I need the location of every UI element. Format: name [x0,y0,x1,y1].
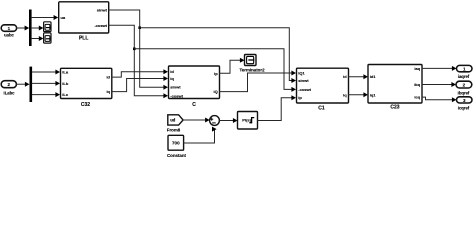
svg-text:ibqref: ibqref [458,90,470,95]
constant Constant 700 [167,135,187,158]
wire C ip to Terminator2 [220,58,245,74]
block PLL [59,2,109,42]
wire PIcs to C1 ip [258,95,297,120]
svg-text:iLc: iLc [62,92,69,97]
wire Sum to PIcs [219,118,237,123]
svg-text:iQ1: iQ1 [298,71,305,76]
wire C23 iaq to outport1 [422,66,457,71]
block PIcs [238,112,258,130]
svg-text:iLb: iLb [62,81,69,86]
svg-text:-coswt: -coswt [94,23,107,28]
svg-text:id: id [170,69,174,74]
svg-text:icqref: icqref [458,106,470,111]
wire From8 to Sum [183,118,210,123]
svg-text:ip: ip [214,71,218,76]
svg-text:id1: id1 [370,74,377,79]
block C [169,66,220,108]
svg-text:iQ: iQ [213,89,217,94]
block C1 [297,68,349,111]
svg-text:id: id [106,75,110,80]
svg-text:C32: C32 [81,102,90,108]
svg-text:iq: iq [170,76,174,81]
svg-text:Constant: Constant [167,153,187,158]
wire demux to Terminator [32,26,44,31]
wire C1 id to C23 id1 [349,74,369,79]
svg-text:uabc: uabc [4,33,14,38]
inport 1 uabc [1,25,16,38]
svg-text:id: id [343,74,347,79]
wire PLL sinwt down to C [109,10,168,90]
svg-text:ibq: ibq [414,82,421,87]
wire C iQ to C1 iQ1 [220,71,297,92]
svg-text:iaq: iaq [414,66,420,71]
svg-text:From8: From8 [167,128,181,133]
wire -coswt branch to C1 [134,49,296,92]
svg-text:700: 700 [172,141,180,146]
terminator Terminator [44,22,51,32]
svg-text:-coswt: -coswt [298,87,311,92]
wire C32 iq to C iq [112,76,168,92]
svg-text:ip: ip [298,95,302,100]
svg-text:sinwt: sinwt [97,8,108,13]
svg-text:iaqref: iaqref [458,74,470,79]
wire C23 ibq to outport2 [422,82,456,87]
inport 2 iLabc [1,81,16,96]
wire demux1 to C32 iLc [32,92,60,97]
wire C1 iq to C23 iq1 [349,92,369,97]
svg-text:iq: iq [106,89,110,94]
wire demux to Terminator1 [32,36,44,41]
svg-text:ud: ud [170,118,176,123]
wire Constant to Sum [184,127,217,143]
svg-text:icq: icq [414,95,420,100]
wire demux1 to C32 iLa [32,70,60,75]
svg-text:iq1: iq1 [370,92,377,97]
wire sinwt branch to C1 [140,28,296,83]
svg-text:iLa: iLa [62,70,69,75]
outport 2 ibqref [456,81,472,95]
junction sinwt branch [138,26,141,29]
svg-text:C1: C1 [318,105,325,111]
outport 1 iaqref [457,65,473,79]
wire iLabc to demux1 [16,82,29,87]
svg-text:PI(s): PI(s) [242,118,251,123]
svg-text:ua: ua [61,15,66,20]
svg-text:sinwt: sinwt [170,85,181,90]
svg-text:iLabc: iLabc [4,90,16,95]
svg-text:C: C [192,102,196,108]
wire PLL -coswt down to C [109,25,168,98]
demux Demux (uabc) [29,10,32,47]
block C23 [368,65,422,111]
demux Demux1 (iLabc) [30,67,33,102]
wire C32 id to C id [112,69,168,77]
svg-text:Terminator2: Terminator2 [239,67,265,72]
svg-text:iq: iq [343,92,347,97]
svg-text:C23: C23 [390,105,399,111]
wire demux to PLL ua [32,15,59,20]
svg-text:PLL: PLL [79,36,88,42]
svg-text:sinwt: sinwt [298,78,309,83]
from From8 (ud) [167,115,183,133]
wire C23 icq to outport3 [422,97,457,102]
block C32 [61,68,112,108]
terminator Terminator1 [44,33,51,43]
terminator Terminator2 [239,55,265,73]
outport 3 icqref [457,97,473,111]
wire uabc to demux [17,26,30,31]
svg-text:-coswt: -coswt [170,93,183,98]
junction -coswt branch [133,48,136,51]
sum Sum [210,116,220,126]
wire demux1 to C32 iLb [32,81,60,86]
